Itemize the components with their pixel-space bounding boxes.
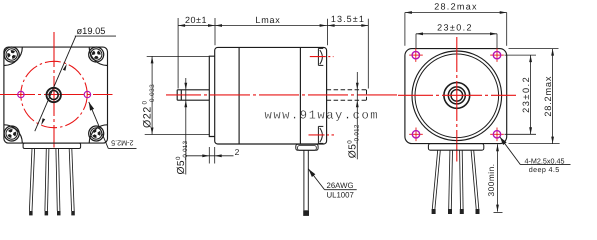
svg-text:-0.013: -0.013 — [182, 140, 189, 160]
svg-text:13.5±1: 13.5±1 — [331, 14, 365, 24]
svg-text:2: 2 — [235, 147, 240, 157]
svg-text:300min.: 300min. — [486, 163, 496, 196]
svg-text:-0.033: -0.033 — [149, 84, 156, 105]
svg-text:28.2max: 28.2max — [434, 1, 478, 11]
svg-text:0: 0 — [346, 140, 353, 144]
svg-text:4-M2.5x0.45: 4-M2.5x0.45 — [525, 156, 565, 165]
svg-text:26AWG: 26AWG — [327, 181, 354, 190]
svg-text:www.91way.com: www.91way.com — [265, 108, 380, 122]
svg-text:ø19.05: ø19.05 — [77, 26, 106, 36]
svg-text:23±0.2: 23±0.2 — [521, 76, 531, 113]
svg-text:23±0.2: 23±0.2 — [437, 23, 473, 33]
svg-text:-0.012: -0.012 — [353, 124, 360, 144]
svg-text:28.2max: 28.2max — [543, 76, 553, 117]
svg-text:0: 0 — [175, 156, 182, 160]
svg-text:Lmax: Lmax — [255, 15, 280, 25]
svg-text:Ø5: Ø5 — [347, 144, 358, 159]
svg-text:2-M2.5: 2-M2.5 — [111, 139, 133, 148]
svg-text:0: 0 — [142, 101, 149, 105]
svg-text:Ø5: Ø5 — [176, 160, 187, 175]
svg-text:20±1: 20±1 — [185, 15, 207, 25]
svg-text:UL1007: UL1007 — [327, 191, 354, 200]
svg-text:deep 4.5: deep 4.5 — [529, 165, 560, 174]
svg-text:Ø22: Ø22 — [142, 106, 154, 128]
